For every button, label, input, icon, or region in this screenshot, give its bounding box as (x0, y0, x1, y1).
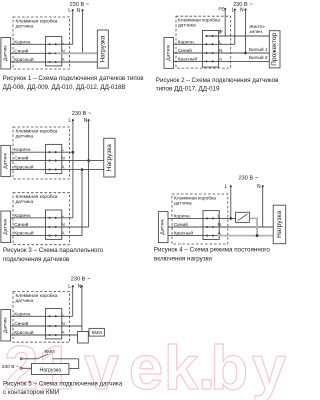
wire N supply vertical to coil fig5 (81, 286, 83, 333)
wire blue row to load fig4 (168, 226, 273, 228)
KMI name plate box fig5 (89, 328, 104, 336)
terminal dot row3b fig2 (211, 60, 213, 62)
terminal dot row2a fig5 (49, 325, 51, 327)
wire blue sensor row fig1 (11, 52, 56, 54)
svg-text:230 В ~: 230 В ~ (2, 364, 19, 370)
wire L supply vertical fig2 (234, 10, 236, 45)
sensor box (Датчик) fig5 (1, 310, 11, 342)
svg-text:N: N (240, 7, 244, 13)
node L terminal fig5 (72, 285, 74, 287)
terminal dot row2a fig1 (49, 52, 51, 54)
terminal strip fig4 (203, 211, 219, 240)
svg-text:Нагрузка: Нагрузка (276, 210, 283, 237)
svg-text:L: L (68, 284, 71, 290)
svg-text:Датчик: Датчик (160, 218, 166, 234)
floodlight box (Прожектор) fig2 (269, 31, 280, 68)
svg-text:типов ДД-017, ДД-019: типов ДД-017, ДД-019 (156, 86, 220, 93)
svg-text:N: N (84, 118, 88, 124)
wire contact down to load right fig5 (69, 359, 79, 369)
wire L supply vertical fig3 (72, 120, 74, 218)
node N terminal fig2 (244, 9, 246, 11)
svg-text:N: N (78, 284, 82, 290)
terminal strip fig5 (46, 309, 62, 339)
node N terminal fig4 (262, 185, 264, 187)
wire brown row unit2 fig3 (11, 217, 73, 219)
svg-text:Нагрузка: Нагрузка (99, 35, 106, 62)
wire KMI contact to load fig5 (53, 358, 79, 360)
terminal dot row2b fig1 (55, 52, 57, 54)
load box (Нагрузка) fig3 (104, 138, 115, 177)
svg-text:Рисунок 3 – Схема параллель: Рисунок 3 – Схема параллельного (3, 247, 104, 254)
svg-text:Датчик: Датчик (2, 45, 8, 61)
terminal dot earth b fig2 (211, 35, 213, 37)
svg-text:зелен.: зелен. (249, 30, 263, 35)
wire earth row to floodlight fig2 (207, 35, 270, 37)
terminal strip fig3a (46, 144, 62, 173)
terminal dot row1b fig4 (212, 217, 214, 219)
terminal dot row1a fig1 (49, 43, 51, 45)
wire N supply vertical fig3 (88, 120, 90, 227)
wire brown row to switch fig4 (168, 217, 236, 219)
svg-text:Нагрузка: Нагрузка (106, 144, 113, 171)
node N terminal fig1 (81, 9, 83, 11)
wire L row to supply fig1 (60, 43, 73, 45)
wire N to load (gray) fig1 (56, 52, 98, 54)
sensor box (Датчик) fig2 (164, 38, 174, 69)
svg-text:Рисунок 5 – Схема подключен: Рисунок 5 – Схема подключения датчика (3, 380, 123, 387)
terminal dot earth a fig2 (205, 35, 207, 37)
wire red row / Белый 2 fig2 (174, 60, 270, 62)
wire A to load fig1 (60, 61, 98, 63)
wire blue row / Белый 1 fig2 (174, 52, 270, 54)
node N terminal fig3 (88, 119, 90, 121)
wire PE vertical fig2 (224, 10, 226, 36)
terminal dot row2a fig3a (49, 160, 51, 162)
wire blue row unit1 to load fig3 (11, 160, 104, 162)
svg-text:Рисунок 1 – Схема подключени: Рисунок 1 – Схема подключения датчиков т… (3, 75, 145, 82)
svg-text:датчика: датчика (16, 24, 34, 29)
supply terminal circle N fig5 (20, 367, 22, 369)
wire N supply vertical fig1 (82, 10, 84, 53)
terminal dot row3a fig3b (49, 235, 51, 237)
junction L row1 fig3 (72, 151, 75, 154)
terminal dot row1a fig2 (205, 43, 207, 45)
node L terminal fig1 (72, 9, 74, 11)
svg-text:N: N (257, 184, 261, 190)
wire N supply vertical fig2 (245, 10, 247, 53)
node L terminal fig4 (230, 185, 232, 187)
terminal dot row1b fig3a (55, 151, 57, 153)
terminal dot row3a fig3a (49, 169, 51, 171)
wire brown sensor row fig1 (11, 43, 60, 45)
junction switch to A wire fig4 (256, 234, 259, 237)
terminal dot row1a fig3a (49, 151, 51, 153)
terminal dot row2b fig2 (211, 52, 213, 54)
terminal strip fig2 (202, 31, 218, 68)
wire L supply vertical fig1 (72, 10, 74, 44)
svg-text:Нагрузка: Нагрузка (40, 368, 62, 374)
wire A link vertical fig3 (81, 170, 83, 236)
terminal box (dashed) fig2 (176, 16, 231, 68)
contactor coil box KMI fig5 (78, 332, 89, 344)
sensor box (Датчик) fig1 (1, 38, 11, 70)
terminal dot row2b fig3b (55, 226, 57, 228)
terminal box (dashed) fig5 (13, 292, 70, 343)
svg-text:L: L (69, 118, 72, 124)
KMI contact lever fig5 (37, 354, 48, 359)
terminal dot row2a fig2 (205, 52, 207, 54)
supply terminal circle L fig5 (20, 358, 22, 360)
svg-text:ДД-008, ДД-009, ДД-010, ДД-012: ДД-008, ДД-009, ДД-010, ДД-012, ДД-018В (3, 84, 126, 91)
wire L supply vertical fig5 (72, 286, 74, 316)
wire brown row unit1 fig3 (11, 151, 73, 153)
node L terminal fig3 (72, 119, 74, 121)
sensor box (Датчик) fig3a (1, 145, 11, 176)
terminal dot row2a fig4 (206, 226, 208, 228)
junction N supply on white1 fig2 (244, 52, 247, 55)
svg-text:L: L (68, 8, 71, 14)
svg-text:с контактором КМИ: с контактором КМИ (3, 389, 59, 396)
manual switch box fig4 (236, 212, 250, 222)
terminal dot row3b fig1 (55, 61, 57, 63)
wire red row to coil fig5 (11, 334, 78, 336)
terminal dot row2b fig4 (212, 226, 214, 228)
wire to KMI contact fig5 (22, 358, 37, 360)
junction A row1 fig3 (81, 168, 84, 171)
load box (Нагрузка) fig5 (32, 364, 69, 375)
terminal strip fig1 (46, 37, 62, 66)
switch lever fig4 (238, 214, 248, 221)
terminal dot row1b fig5 (55, 315, 57, 317)
svg-text:PE: PE (218, 7, 224, 12)
svg-text:230 В ~: 230 В ~ (239, 176, 259, 182)
node L terminal fig2 (234, 9, 236, 11)
wire switch output (gray) fig4 (249, 218, 257, 235)
svg-text:КМИ: КМИ (45, 349, 56, 355)
wire blue row unit2 fig3 (11, 226, 89, 228)
terminal dot row1a fig4 (206, 217, 208, 219)
sensor box (Датчик) fig4 (158, 212, 168, 243)
node N terminal fig5 (81, 285, 83, 287)
terminal dot row3b fig5 (55, 334, 57, 336)
svg-text:датчика: датчика (174, 201, 192, 206)
wire brown row fig2 (174, 43, 235, 45)
svg-text:Белый 1: Белый 1 (249, 46, 268, 53)
terminal dot row2b fig5 (55, 325, 57, 327)
terminal dot row3a fig1 (49, 61, 51, 63)
svg-text:Датчик: Датчик (2, 218, 8, 234)
terminal dot row3b fig4 (212, 235, 214, 237)
terminal dot row1a fig5 (49, 315, 51, 317)
svg-text:Датчик: Датчик (2, 317, 8, 333)
wire brown row fig5 (11, 315, 73, 317)
svg-text:L: L (61, 39, 64, 45)
terminal dot row1b fig3b (55, 217, 57, 219)
svg-text:датчика: датчика (16, 134, 34, 139)
terminal dot row3a fig5 (49, 334, 51, 336)
wire red sensor row fig1 (11, 61, 60, 63)
terminal dot row3a fig2 (205, 60, 207, 62)
load box (Нагрузка) fig1 (97, 30, 108, 68)
terminal box (dashed) fig3a (13, 127, 70, 179)
terminal dot row1b fig1 (55, 43, 57, 45)
svg-text:КМИ: КМИ (92, 330, 102, 335)
svg-text:Рисунок 2 – Схема подключени: Рисунок 2 – Схема подключения датчиков (156, 77, 279, 84)
terminal box (dashed) fig4 (172, 194, 228, 244)
svg-text:включения нагрузки: включения нагрузки (154, 256, 212, 263)
terminal dot row2a fig3b (49, 226, 51, 228)
wire N supply vertical fig4 (262, 186, 264, 227)
wire red row unit2 fig3 (11, 235, 82, 237)
svg-text:N: N (77, 8, 81, 14)
wire N to load fig5 (22, 367, 31, 369)
terminal dot row2b fig3a (55, 160, 57, 162)
wire red row unit1 to load fig3 (11, 169, 104, 171)
svg-text:230 В ~: 230 В ~ (71, 277, 91, 283)
terminal dot row3a fig4 (206, 235, 208, 237)
node PE terminal fig2 (224, 8, 226, 10)
svg-text:Датчик: Датчик (165, 44, 171, 60)
terminal dot row3b fig3a (55, 169, 57, 171)
svg-text:Белый 2: Белый 2 (249, 54, 268, 61)
wire red row fig4 (168, 235, 217, 237)
svg-text:Датчик: Датчик (2, 152, 8, 168)
junction L row switch fig4 (230, 217, 233, 220)
wire L supply vertical fig4 (230, 186, 232, 218)
wire A to load (gray) fig4 (217, 235, 273, 237)
junction N row1 fig3 (87, 159, 90, 162)
svg-text:230 В ~: 230 В ~ (72, 111, 92, 117)
svg-text:L: L (225, 184, 228, 190)
wire blue row fig5 (11, 325, 82, 327)
svg-text:подключения датчиков: подключения датчиков (3, 256, 70, 263)
terminal strip fig3b (46, 210, 62, 239)
terminal box (dashed) fig1 (13, 17, 70, 69)
terminal dot row1b fig2 (211, 43, 213, 45)
terminal box (dashed) fig3b (13, 193, 70, 245)
terminal dot row3b fig3b (55, 235, 57, 237)
svg-text:датчика: датчика (16, 299, 34, 304)
svg-text:датчика: датчика (178, 23, 196, 28)
svg-text:датчика: датчика (16, 200, 34, 205)
sensor box (Датчик) fig3b (1, 211, 11, 243)
svg-text:Прожектор: Прожектор (271, 32, 278, 65)
earth ground symbol fig2 (218, 29, 222, 33)
load box (Нагрузка) fig4 (273, 205, 286, 244)
svg-text:Рисунок 4 – Схема режима по: Рисунок 4 – Схема режима постоянного (154, 247, 271, 254)
terminal dot row1a fig3b (49, 217, 51, 219)
